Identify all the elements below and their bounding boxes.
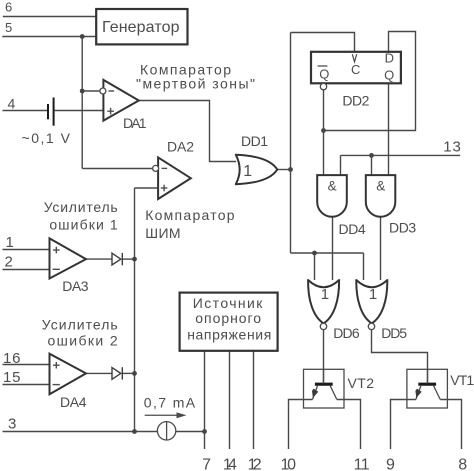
wire DD2 C input path <box>291 33 355 52</box>
node junction DD1 output <box>288 167 293 172</box>
svg-text:опорного: опорного <box>195 310 261 326</box>
inverting bubble DD5 output <box>368 323 374 329</box>
node junction DA4 diode to bus <box>132 371 137 376</box>
svg-text:VT1: VT1 <box>450 372 474 388</box>
svg-text:Усилитель: Усилитель <box>42 317 118 333</box>
wire pin 2 line <box>3 269 50 271</box>
current source I1 bar <box>166 422 168 440</box>
svg-text:C: C <box>351 62 360 77</box>
svg-text:16: 16 <box>3 350 21 367</box>
wire reference box to pin 12 <box>253 351 255 449</box>
plus minus marks DA4 <box>53 362 60 385</box>
svg-text:ШИМ: ШИМ <box>145 225 180 241</box>
node junction DA3 diode to bus <box>132 257 137 262</box>
node junction feedback bus to pin3 <box>132 429 137 434</box>
svg-text:7: 7 <box>202 457 211 471</box>
svg-text:ошибки 2: ошибки 2 <box>48 333 118 349</box>
wire DD5 left input <box>363 253 365 280</box>
svg-text:DA1: DA1 <box>123 115 147 131</box>
svg-text:10: 10 <box>281 457 297 471</box>
plus minus marks DA1 <box>107 91 114 115</box>
svg-text:VT2: VT2 <box>348 375 375 391</box>
transistor VT1 symbol <box>415 369 440 399</box>
op-amp DA3 error amp triangle <box>50 238 87 278</box>
wire DD5 output to VT1 base <box>372 330 428 384</box>
wire DD1 bus to NOR inputs y=253 <box>291 252 364 254</box>
inverting bubble DD6 output <box>320 323 326 329</box>
wire pin 3 line <box>3 431 158 433</box>
wire VT1 emitter to pin 9 <box>391 400 416 450</box>
op-amp DA1 comparator triangle <box>103 80 138 121</box>
svg-text:"мертвой зоны": "мертвой зоны" <box>136 75 255 91</box>
svg-text:8: 8 <box>458 457 467 471</box>
svg-text:4: 4 <box>8 96 16 112</box>
wire DA3 output to diode <box>86 258 112 260</box>
svg-text:0,7 mA: 0,7 mA <box>144 395 196 411</box>
DD2 clock input arrowhead <box>352 54 356 62</box>
wire DD2 Qbar output down to DD4 <box>323 90 325 175</box>
svg-text:DA4: DA4 <box>60 394 87 410</box>
svg-text:DD4: DD4 <box>339 221 366 237</box>
svg-text:1: 1 <box>369 286 377 303</box>
wire DA4 output to diode <box>86 372 112 374</box>
current direction arrow 0.7mA <box>145 412 187 418</box>
svg-text:~0,1 V: ~0,1 V <box>22 130 71 146</box>
wire DD2 D feedback path <box>324 32 416 131</box>
wire pin 16 line <box>3 364 50 366</box>
wire VT2 collector to pin 11 <box>337 400 361 450</box>
wire diode VD1 to bus <box>122 258 134 260</box>
op-amp DA2 comparator triangle <box>158 157 191 199</box>
flipflop DD2 box <box>311 52 401 84</box>
svg-text:13: 13 <box>443 138 461 155</box>
wire VT2 emitter to pin 10 <box>289 400 313 450</box>
svg-text:1: 1 <box>243 163 252 180</box>
Qbar overbar <box>318 65 328 67</box>
wire DA1 output to DD1 upper input <box>139 101 236 162</box>
svg-text:Усилитель: Усилитель <box>44 199 118 215</box>
svg-text:&: & <box>376 178 385 193</box>
battery GB1 0.1V <box>48 98 54 126</box>
wire vertical DD1 output bus x=290.7 <box>290 33 292 254</box>
svg-text:DA3: DA3 <box>62 278 89 294</box>
svg-text:5: 5 <box>5 20 12 35</box>
plus minus marks DA3 <box>53 247 60 270</box>
nor-gate DD5 body <box>356 280 387 323</box>
node junction pin13 to DD3 <box>369 153 374 158</box>
wire current source to pin7 node <box>176 431 205 433</box>
diode VD1 <box>112 253 122 265</box>
current source circle <box>157 422 175 440</box>
wire DD6 output to VT2 base <box>323 330 325 384</box>
svg-text:D: D <box>385 50 394 65</box>
wire pin 15 line <box>3 384 50 386</box>
svg-text:DD3: DD3 <box>389 219 416 235</box>
wire vertical CT bus x=82 <box>81 37 83 169</box>
wire DD6 left input <box>314 253 316 280</box>
svg-text:Генератор: Генератор <box>102 19 180 36</box>
wire DA2 plus input <box>135 187 159 189</box>
transistor VT2 symbol <box>312 369 337 399</box>
svg-text:12: 12 <box>248 457 262 471</box>
svg-text:DD1: DD1 <box>241 133 268 149</box>
svg-text:DD5: DD5 <box>381 325 407 341</box>
svg-text:3: 3 <box>8 416 16 433</box>
svg-text:напряжения: напряжения <box>187 327 271 343</box>
wire DD4 right input <box>340 155 342 175</box>
node junction Qbar-D feedback <box>321 128 326 133</box>
wire DD3 left input <box>371 155 373 175</box>
wire VT1 collector to pin 8 <box>440 400 461 450</box>
node junction on pin5 line <box>80 34 85 39</box>
wire reference box to pin 14 <box>229 351 231 449</box>
svg-text:14: 14 <box>223 457 237 471</box>
node junction DD6 input tap <box>312 251 317 256</box>
wire DA1 inverting stub <box>82 90 100 92</box>
svg-text:DD2: DD2 <box>342 93 369 109</box>
wire feedback bus x=135 <box>134 188 136 432</box>
generator box <box>96 9 187 44</box>
wire pin 1 line <box>3 249 50 251</box>
plus minus marks DA2 <box>161 168 168 191</box>
wire pin 6 line <box>3 16 96 18</box>
svg-text:&: & <box>328 178 337 193</box>
wire DD2 Q output down to DD3 <box>388 83 390 175</box>
svg-text:Q: Q <box>319 67 329 82</box>
wire battery to DA1 plus <box>55 110 104 112</box>
inverting bubble DD2 Qbar <box>320 83 326 89</box>
wire pin 13 line <box>341 154 461 156</box>
svg-text:ошибки 1: ошибки 1 <box>49 216 118 232</box>
op-amp DA4 error amp triangle <box>50 354 87 395</box>
wire DD3 output to DD5 <box>380 217 382 280</box>
diode VD2 <box>112 367 122 379</box>
svg-text:15: 15 <box>3 369 21 386</box>
svg-text:Компаратор: Компаратор <box>145 207 235 223</box>
wire diode VD2 to bus <box>122 372 134 374</box>
svg-text:2: 2 <box>5 253 13 270</box>
svg-text:DA2: DA2 <box>167 139 194 155</box>
svg-text:9: 9 <box>386 457 395 471</box>
svg-text:6: 6 <box>5 0 12 15</box>
nor-gate DD6 body <box>308 280 339 323</box>
and-gate DD4 body <box>317 175 347 217</box>
svg-text:1: 1 <box>321 286 329 303</box>
transistor VT1 box <box>407 369 448 408</box>
or-gate DD1 body <box>236 155 277 184</box>
reference source box <box>180 293 278 351</box>
wire pin 4 line <box>3 110 48 112</box>
inverting bubble DA1 <box>100 88 106 94</box>
inverting bubble DA2 <box>153 165 159 171</box>
node junction pin7 line <box>202 429 207 434</box>
svg-text:DD6: DD6 <box>333 325 360 341</box>
svg-text:1: 1 <box>6 234 14 251</box>
and-gate DD3 body <box>366 175 396 217</box>
wire DA2 inverting input <box>82 168 153 170</box>
wire reference box to pin 7 <box>204 351 206 449</box>
wire DD4 output to DD6 <box>332 217 334 280</box>
wire DD1 output <box>277 169 290 171</box>
svg-text:Q: Q <box>384 67 394 82</box>
transistor VT2 box <box>304 369 345 408</box>
node junction DA1 inverting tap <box>80 89 85 94</box>
wire pin 5 line <box>2 36 96 38</box>
svg-text:11: 11 <box>354 457 370 471</box>
